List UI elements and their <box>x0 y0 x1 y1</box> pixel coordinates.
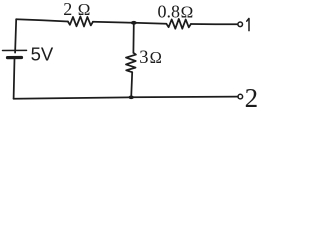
svg-text:Ω: Ω <box>181 2 194 21</box>
battery V1 5V long plate <box>3 49 27 51</box>
svg-text:5V: 5V <box>31 43 54 64</box>
wire middle vertical lower <box>131 72 132 97</box>
wire to terminal 1 <box>191 23 238 25</box>
wire top-left horizontal <box>16 19 68 21</box>
battery V1 5V short thick plate <box>8 56 22 59</box>
wire top to 0.8ohm <box>134 23 167 24</box>
wire bottom <box>14 97 238 99</box>
resistor R 2ohm zigzag <box>68 17 93 27</box>
terminal 2 open circle <box>238 94 243 99</box>
wire top-middle <box>93 22 134 23</box>
label terminal 1 <box>247 19 249 31</box>
wire left side upper (corner to battery) <box>15 19 16 52</box>
wire left side lower (battery to corner) <box>13 59 16 99</box>
svg-text:3: 3 <box>139 48 148 68</box>
svg-text:0.8: 0.8 <box>158 2 181 22</box>
resistor R 0.8ohm zigzag <box>166 19 191 29</box>
svg-text:Ω: Ω <box>78 0 91 19</box>
svg-text:2: 2 <box>245 83 259 109</box>
node B junction dot bottom <box>129 96 134 100</box>
svg-text:2: 2 <box>63 0 72 19</box>
node A junction dot top <box>131 21 137 25</box>
resistor R 3ohm vertical zigzag <box>126 53 136 72</box>
wire middle vertical upper <box>132 23 134 53</box>
svg-text:Ω: Ω <box>150 48 162 67</box>
terminal 1 open circle <box>238 22 243 27</box>
